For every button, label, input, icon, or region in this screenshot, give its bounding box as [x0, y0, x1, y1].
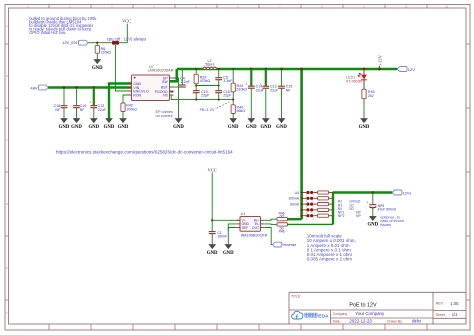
svg-text:RON: RON: [133, 93, 141, 97]
wire VCC to U1: [212, 219, 240, 221]
svg-text:FB=1.2V: FB=1.2V: [200, 108, 215, 112]
capacitor C18: [54, 88, 68, 119]
svg-text:BST: BST: [161, 85, 169, 89]
svg-text:3.3nF: 3.3nF: [223, 79, 233, 83]
svg-text:+: +: [89, 101, 91, 105]
svg-text:GND: GND: [173, 125, 184, 130]
ground (NP5): [367, 216, 378, 227]
node NP5: [371, 191, 374, 194]
EP note: [156, 110, 174, 118]
svg-text:dirkx: dirkx: [412, 319, 422, 324]
capacitor C4 bootstrap: [179, 69, 191, 87]
ground (C14): [246, 118, 257, 129]
VCC flag (top): [122, 19, 131, 43]
ground (U7 GND pin): [104, 118, 115, 129]
svg-text:+12V: +12V: [377, 54, 382, 65]
port vsense: [273, 242, 297, 247]
wire 12V down bus: [300, 69, 303, 219]
svg-text:100mA: 100mA: [288, 197, 299, 201]
svg-text:NP2: NP2: [338, 214, 345, 218]
svg-text:EDA: EDA: [318, 313, 329, 319]
capacitor C13: [89, 88, 106, 119]
wire SW riser: [170, 69, 177, 81]
ground (C12): [260, 118, 271, 129]
node FB divider: [232, 99, 234, 101]
svg-text:https://electronics.stackexcha: https://electronics.stackexchange.com/qu…: [56, 150, 233, 155]
jumper row 4 (..): [297, 208, 334, 214]
wire U7 GND pin to ground: [109, 84, 132, 119]
ground (C19): [71, 118, 82, 129]
capacitor NP5 electrolytic: [366, 193, 395, 217]
svg-text:GPIO initial HiZ low.: GPIO initial HiZ low.: [29, 30, 66, 35]
svg-text:22pF: 22pF: [223, 94, 232, 98]
svg-text:22uF: 22uF: [98, 108, 107, 112]
FB note: [200, 102, 230, 113]
wire 48V rail: [48, 86, 131, 89]
capacitor C15: [278, 68, 292, 119]
svg-text:GND: GND: [276, 125, 287, 130]
title block: [289, 292, 466, 324]
svg-text:Drawn By:: Drawn By:: [387, 319, 403, 323]
capacitor C12: [260, 68, 279, 119]
capacitor C5: [215, 68, 233, 91]
resistor R6: [95, 43, 111, 60]
ground (C15): [276, 118, 287, 129]
wire EN from jumper to U7: [116, 45, 132, 91]
svg-text:GND: GND: [71, 125, 82, 130]
svg-text:12V: 12V: [408, 67, 415, 72]
svg-text:2022-12-23: 2022-12-23: [349, 319, 372, 324]
svg-text:D: D: [6, 202, 8, 206]
wire R48 to out bus: [287, 223, 333, 225]
svg-text:FB: FB: [163, 93, 168, 97]
svg-text:GND: GND: [59, 125, 70, 130]
wire R29/C10 mid to C5/C16 mid: [196, 85, 219, 87]
svg-text:GND: GND: [207, 251, 218, 256]
wire IN-: [264, 223, 277, 226]
wire BST: [170, 86, 183, 88]
svg-text:GND: GND: [104, 125, 115, 130]
node C13: [92, 86, 95, 89]
wire sense out bus: [332, 193, 334, 225]
ground (R42): [118, 118, 129, 129]
solder jumper cpu ctrl: [112, 41, 116, 45]
svg-text:470kΩ: 470kΩ: [200, 79, 211, 83]
svg-text:INA199B1DCKR: INA199B1DCKR: [241, 234, 268, 238]
inductor L2 56uH: [203, 59, 216, 69]
node C19: [75, 86, 78, 89]
svg-text:56kΩ: 56kΩ: [237, 109, 246, 113]
svg-text:2k2: 2k2: [368, 94, 374, 98]
resistor R45: [362, 80, 375, 119]
wire IN+: [264, 219, 277, 220]
svg-text:NF: NF: [55, 108, 61, 112]
svg-text:Your Company: Your Company: [355, 311, 385, 316]
EasyEDA logo: [292, 311, 329, 319]
svg-text:cpu ctrl : 12V) always: cpu ctrl : 12V) always: [107, 36, 146, 41]
VCC flag (sense): [208, 168, 217, 221]
resistor R42: [121, 95, 137, 118]
svg-text:220kΩ: 220kΩ: [101, 51, 112, 55]
svg-text:..: ..: [297, 214, 299, 218]
svg-text:PoE to 12V: PoE to 12V: [349, 302, 377, 308]
resistor R29: [194, 68, 210, 91]
ground (U1): [223, 244, 234, 255]
svg-text:LMR16020DAR: LMR16020DAR: [148, 69, 174, 73]
port 48V: [30, 85, 48, 90]
jumper row 3 (60mA): [290, 202, 334, 208]
svg-text:60mA: 60mA: [290, 202, 300, 206]
wire port to jumper: [88, 42, 112, 44]
resistor R44: [231, 68, 247, 105]
wire sense output: [333, 191, 392, 193]
svg-text:B: B: [6, 74, 8, 78]
inrush note: [380, 216, 404, 227]
svg-text:REF: REF: [242, 226, 249, 230]
capacitor C10: [193, 90, 210, 100]
svg-text:U1: U1: [241, 212, 246, 216]
jumper row 1 (U4): [295, 191, 334, 197]
svg-text:0Ω: 0Ω: [280, 215, 285, 219]
resistor R48: [277, 223, 287, 234]
svg-text:no current: no current: [156, 114, 174, 118]
svg-text:2.2nF: 2.2nF: [181, 80, 191, 84]
svg-text:SW: SW: [162, 80, 168, 84]
svg-text:TITLE:: TITLE:: [291, 294, 301, 298]
capacitor C14: [245, 68, 264, 119]
svg-text:+: +: [260, 82, 262, 86]
svg-text:1/1: 1/1: [452, 312, 458, 317]
ground (R40): [228, 118, 239, 129]
svg-text:22pF: 22pF: [201, 94, 210, 98]
svg-text:Date:: Date:: [333, 319, 341, 323]
net flag +12V: [377, 54, 382, 70]
svg-text:+: +: [366, 200, 368, 204]
port 12Vs: [392, 190, 411, 195]
svg-text:56uH: 56uH: [205, 63, 214, 67]
svg-text:12Vs: 12Vs: [403, 191, 412, 195]
jumper row 5 (..): [297, 214, 334, 220]
svg-text:C: C: [6, 138, 8, 142]
scale note: [307, 234, 356, 262]
op-amp U1 INA199: [236, 212, 267, 237]
svg-text:..: ..: [297, 208, 299, 212]
svg-text:48V: 48V: [30, 85, 37, 90]
svg-text:GND: GND: [228, 125, 239, 130]
wire FB line: [170, 95, 234, 100]
svg-text:GND: GND: [88, 125, 99, 130]
node VCC/C1: [211, 219, 213, 221]
svg-text:0.005 Ampere x 2 ohm: 0.005 Ampere x 2 ohm: [307, 257, 353, 262]
svg-text:KT-0603R: KT-0603R: [346, 79, 362, 83]
sense resistor value table: [338, 200, 362, 218]
svg-text:VCC: VCC: [208, 168, 217, 173]
svg-text:issues: issues: [380, 223, 391, 227]
svg-text:E: E: [6, 266, 8, 270]
wire EP to ground: [174, 78, 179, 118]
svg-text:22uF: 22uF: [256, 88, 265, 92]
svg-text:GND: GND: [260, 125, 271, 130]
svg-text:Sheet:: Sheet:: [436, 313, 446, 317]
wire jumper to VCC lead: [119, 42, 127, 44]
ground (C13): [88, 118, 99, 129]
op-amp U7 LMR16020: [128, 65, 174, 101]
wire SW rail: [177, 68, 398, 71]
svg-text:22uF: 22uF: [270, 88, 279, 92]
node FB junctions: [195, 99, 197, 101]
ground (R6): [92, 59, 103, 70]
svg-text:%vsense: %vsense: [283, 243, 297, 247]
node R6 junction: [96, 42, 98, 44]
port 12V_EN: [62, 40, 88, 45]
svg-text:NP: NP: [356, 214, 362, 218]
svg-text:Company:: Company:: [333, 312, 349, 316]
capacitor C16: [215, 90, 232, 100]
svg-text:+: +: [245, 82, 247, 86]
svg-text:GND: GND: [223, 251, 234, 256]
svg-text:A: A: [6, 24, 8, 28]
svg-text:12V_EN: 12V_EN: [62, 40, 77, 45]
LED LED1: [346, 68, 367, 84]
svg-text:GND: GND: [246, 125, 257, 130]
node C4/rail: [181, 68, 183, 70]
svg-text:NF: NF: [286, 88, 292, 92]
svg-text:GND: GND: [118, 125, 129, 130]
svg-text:VCC: VCC: [122, 19, 131, 24]
ground (C18): [59, 118, 70, 129]
svg-text:OUT: OUT: [252, 226, 259, 230]
svg-text:100kΩ: 100kΩ: [126, 108, 137, 112]
wire R46 to sense bus: [287, 218, 301, 220]
svg-text:GND: GND: [367, 223, 378, 228]
resistor R46: [277, 212, 287, 221]
note text top-left: [29, 16, 97, 35]
svg-text:NF: NF: [80, 108, 86, 112]
no-connect PGOOD: [171, 90, 174, 93]
jumper row 2 (100mA): [288, 197, 334, 203]
ground (C1): [207, 244, 218, 255]
capacitor C19: [73, 88, 86, 119]
svg-text:47uF 50Volt: 47uF 50Volt: [378, 208, 396, 212]
wire U1 REF: [228, 228, 236, 232]
port 12V: [397, 67, 415, 72]
capacitor C1: [209, 220, 228, 244]
ground (EP): [173, 118, 184, 129]
svg-text:GND: GND: [359, 125, 370, 130]
svg-text:U4: U4: [295, 191, 299, 195]
ground (R45): [359, 118, 370, 129]
svg-text:R48: R48: [279, 230, 285, 234]
svg-text:510kΩ: 510kΩ: [237, 88, 248, 92]
svg-text:1.05: 1.05: [450, 301, 459, 306]
svg-text:2Ω: 2Ω: [349, 207, 354, 211]
wire OUT to vsense port: [264, 228, 272, 245]
node C18: [63, 86, 66, 89]
resistor R40: [231, 105, 245, 119]
svg-text:REV:: REV:: [436, 302, 444, 306]
wire U1 GND to ground: [228, 224, 236, 245]
svg-text:GND: GND: [92, 66, 103, 71]
svg-text:100nF: 100nF: [217, 235, 228, 239]
